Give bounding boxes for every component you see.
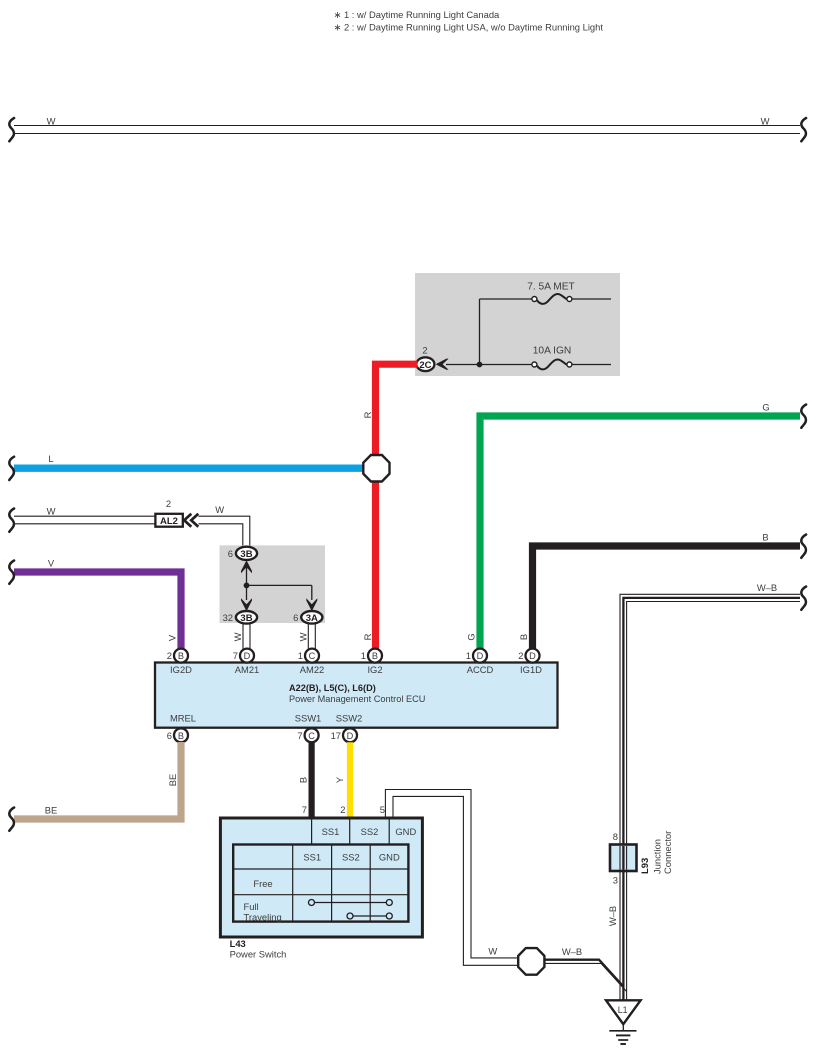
connector pin 2 B (IG2D) [167,649,188,663]
svg-text:3B: 3B [240,549,252,560]
svg-text:SS2: SS2 [342,852,360,863]
svg-text:5: 5 [380,804,385,815]
svg-text:B: B [298,777,309,783]
svg-text:1: 1 [466,650,471,661]
wire B (black, top right) [533,546,801,649]
arrowhead into connector 2C [436,359,449,370]
svg-text:2: 2 [167,650,172,661]
connector pin 6 B (MREL) [167,728,188,742]
svg-text:B: B [178,651,184,661]
svg-text:Power Management Control ECU: Power Management Control ECU [289,694,425,704]
svg-text:D: D [477,651,484,661]
svg-text:SS1: SS1 [303,852,321,863]
svg-text:Traveling: Traveling [244,912,282,923]
break symbol left of wire BE [9,808,14,831]
svg-text:L: L [48,453,53,464]
svg-text:W: W [232,632,243,641]
break symbol left of W wire [9,509,14,532]
svg-text:2C: 2C [419,360,431,371]
svg-text:AM21: AM21 [235,664,260,675]
svg-text:3: 3 [613,875,618,886]
connector pin 1 D (ACCD) [466,649,487,663]
svg-text:W–B: W–B [757,582,777,593]
svg-text:Power Switch: Power Switch [230,949,287,960]
svg-text:SS2: SS2 [361,826,379,837]
svg-text:W: W [215,504,224,515]
wire G (green) [480,416,800,649]
svg-text:BE: BE [45,805,58,816]
svg-text:8: 8 [613,831,618,842]
wire BE (tan) from MREL [14,742,181,819]
break symbol left of wire L [9,457,14,480]
svg-text:C: C [309,651,316,661]
connector 3A [293,611,322,624]
wire inside fuse block (lower, 10A IGN branch) [446,364,532,366]
svg-text:2: 2 [340,804,345,815]
shield arrows after AL2 [184,514,198,527]
wire vertical branch in fuse block [479,299,481,365]
svg-text:2: 2 [166,498,171,509]
wire W (GND) from L43 pin 5 to splice [385,790,520,966]
svg-text:MREL: MREL [170,713,196,724]
fuse block shaded box [415,273,620,376]
connector pin 1 C (AM22) [298,649,319,663]
wire W top (white wire, full width) [14,126,800,134]
up arrow to 3B [246,566,248,585]
break symbol right of wire B [801,535,806,558]
svg-text:10A IGN: 10A IGN [533,346,572,357]
svg-text:2: 2 [518,650,523,661]
down arrow to 3A [306,598,317,611]
svg-text:L43: L43 [230,938,246,949]
connector 3B lower [223,611,258,624]
svg-text:C: C [308,731,315,741]
break symbol left of wire W top [9,118,14,141]
junction dot [244,583,250,589]
svg-text:W–B: W–B [562,946,582,957]
wire W to AL2 (left segment) [14,516,156,524]
svg-text:Y: Y [334,776,345,783]
switch state table [233,845,408,923]
fuse 7.5A MET [527,282,575,304]
break symbol right of wire G [801,405,806,428]
svg-text:W: W [47,116,56,127]
break symbol left of wire V [9,561,14,584]
svg-text:W: W [488,946,497,957]
svg-text:G: G [466,633,477,640]
svg-text:SSW1: SSW1 [295,713,322,724]
connector 2C [416,345,434,372]
svg-text:D: D [529,651,536,661]
svg-text:GND: GND [395,826,416,837]
connector pin 1 B (IG2) [361,649,382,663]
svg-text:AL2: AL2 [160,516,178,527]
junction connector L93 [610,845,637,872]
wire across to 3A [247,584,312,586]
break symbol right of wire W top [801,118,806,141]
connector AL2 [155,498,182,527]
svg-text:V: V [167,634,178,641]
svg-text:6: 6 [293,612,298,623]
svg-text:ACCD: ACCD [467,664,494,675]
wire W from 3A to AM22 [308,624,315,650]
contact SS2-GND [347,913,392,919]
ground symbol [609,1024,636,1044]
connector pin 7 C (SSW1) [297,728,318,742]
svg-text:D: D [244,651,251,661]
wire W-B (top right) [620,594,800,1000]
svg-text:Full: Full [244,901,259,912]
svg-text:SSW2: SSW2 [336,713,363,724]
svg-text:B: B [178,731,184,741]
svg-text:1: 1 [298,650,303,661]
svg-text:7: 7 [297,730,302,741]
svg-text:B: B [518,634,529,640]
ground triangle L1 [606,1000,641,1024]
svg-text:IG1D: IG1D [520,664,542,675]
wire R (red) from 2C to octagon splice to ECU IG2 [376,364,418,648]
svg-text:W: W [297,632,308,641]
svg-text:Connector: Connector [662,831,673,874]
wire W-B from splice to ground line [545,960,627,992]
svg-text:7: 7 [233,650,238,661]
ECU box A22 [155,663,558,728]
wire W from 3B to AM21 [243,624,250,650]
svg-text:AM22: AM22 [300,664,325,675]
shaded box (3B/3A junction area) [220,545,326,623]
svg-text:7: 7 [302,804,307,815]
svg-text:SS1: SS1 [322,826,340,837]
svg-text:L93: L93 [639,858,650,874]
svg-text:∗ 1 : w/ Daytime Running Light: ∗ 1 : w/ Daytime Running Light Canada [334,9,501,20]
connector pin 17 D (SSW2) [331,728,357,742]
wire W from AL2 down to 3B (right segment) [199,516,250,548]
svg-text:R: R [362,411,373,418]
svg-text:6: 6 [167,730,172,741]
svg-text:R: R [362,633,373,640]
svg-text:A22(B), L5(C), L6(D): A22(B), L5(C), L6(D) [289,683,376,693]
splice octagon (red/blue junction) [363,455,389,482]
down arrow to 3B lower [246,585,248,600]
svg-text:W–B: W–B [607,906,618,926]
svg-text:V: V [48,558,55,569]
svg-text:IG2D: IG2D [170,664,192,675]
svg-text:∗ 2 : w/ Daytime Running Light: ∗ 2 : w/ Daytime Running Light USA, w/o … [334,22,604,33]
svg-text:BE: BE [167,774,178,787]
splice octagon (W / W-B) [518,948,544,975]
svg-text:G: G [762,402,769,413]
svg-text:7. 5A MET: 7. 5A MET [527,282,575,293]
svg-text:17: 17 [331,730,341,741]
svg-text:3A: 3A [306,613,318,624]
svg-text:W: W [47,506,56,517]
wire upper branch (7.5A MET) [480,298,532,300]
pin separators [311,820,313,844]
break symbol right of wire W-B [801,587,806,610]
wire B (black) from SSW1 to L43 [309,742,315,818]
connector pin 7 D (AM21) [233,649,254,663]
wire V (violet) [14,572,181,649]
svg-text:B: B [372,651,378,661]
svg-text:3B: 3B [240,613,252,624]
junction dot in fuse block [477,362,483,368]
svg-text:B: B [762,532,768,543]
fuse 10A IGN [532,346,572,370]
svg-text:Free: Free [253,878,272,889]
svg-text:32: 32 [223,612,233,623]
wire L (blue) [14,465,367,472]
svg-text:D: D [347,731,354,741]
contact SS1-GND [309,900,393,906]
L43 power switch box [220,818,422,937]
svg-text:IG2: IG2 [367,664,382,675]
svg-text:Junction: Junction [652,839,663,874]
svg-text:1: 1 [361,650,366,661]
svg-text:6: 6 [228,548,233,559]
connector pin 2 D (IG1D) [518,649,539,663]
wire Y (yellow) from SSW2 to L43 [347,742,353,818]
svg-text:L1: L1 [618,1005,628,1015]
svg-text:W: W [761,116,770,127]
svg-text:2: 2 [422,345,427,356]
svg-text:GND: GND [379,852,400,863]
connector 3B top [228,547,257,560]
